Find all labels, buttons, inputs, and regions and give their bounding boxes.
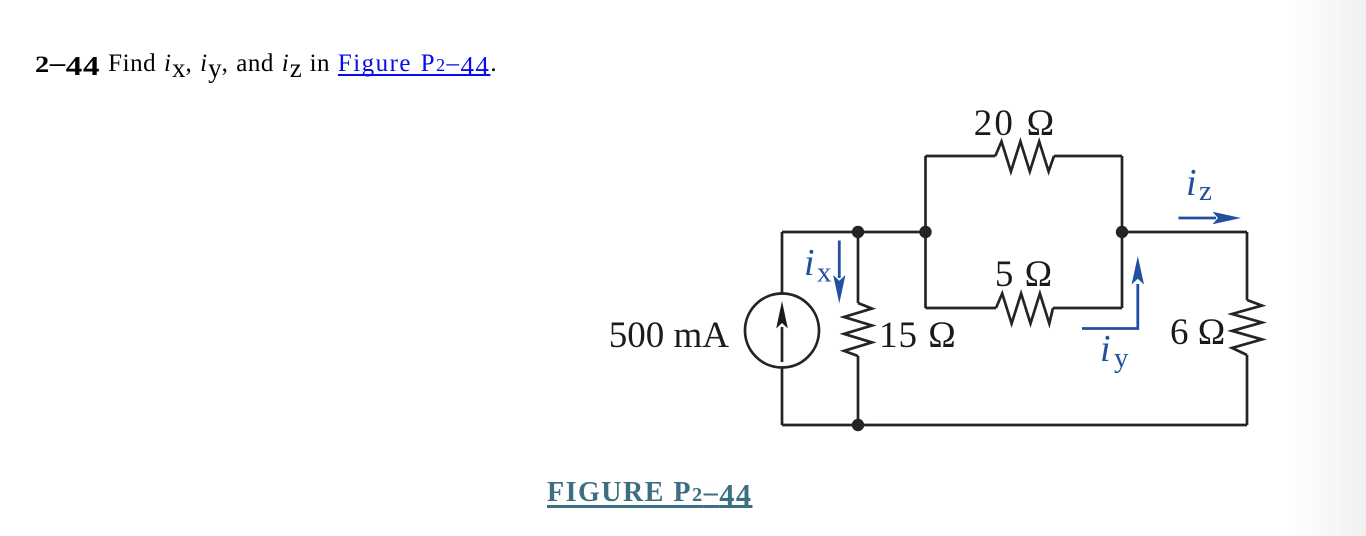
node C dot xyxy=(1116,226,1128,238)
figure caption link xyxy=(547,479,752,507)
svg-text:5 Ω: 5 Ω xyxy=(995,254,1053,295)
resistor R2 20 ohm zigzag xyxy=(995,142,1054,172)
wire: 5-ohm branch right horizontal xyxy=(1053,307,1122,310)
svg-text:x: x xyxy=(817,257,832,289)
svg-text:i: i xyxy=(1186,162,1197,204)
wire: 6-ohm branch bottom vertical xyxy=(1246,355,1249,425)
svg-text:20 Ω: 20 Ω xyxy=(974,103,1057,144)
resistor R4 6 ohm zigzag xyxy=(1232,300,1262,355)
current label ix xyxy=(804,242,832,289)
svg-text:y: y xyxy=(1114,342,1129,374)
wire: top branch left horizontal xyxy=(926,155,996,158)
current arrow ix (down) xyxy=(833,241,845,304)
svg-text:15 Ω: 15 Ω xyxy=(879,315,957,356)
svg-text:6 Ω: 6 Ω xyxy=(1170,312,1225,353)
svg-text:i: i xyxy=(1100,328,1111,370)
wire: top branch left vertical xyxy=(924,156,927,232)
right page-edge gradient xyxy=(1286,0,1366,536)
current arrow iz (right) xyxy=(1179,212,1242,224)
svg-text:500 mA: 500 mA xyxy=(609,315,730,356)
current arrow iy (L-shape up) xyxy=(1082,256,1144,329)
source arrow xyxy=(776,301,788,362)
wire: 5-ohm branch right vertical xyxy=(1121,232,1124,308)
node A dot xyxy=(852,226,864,238)
svg-text:i: i xyxy=(804,242,815,284)
node B dot xyxy=(919,226,931,238)
current source U1 circle xyxy=(745,294,819,368)
wire: source bottom vertical xyxy=(781,368,784,426)
wire: 15-ohm branch top xyxy=(857,232,860,303)
current label iy xyxy=(1100,328,1129,374)
resistor R1 15 ohm zigzag xyxy=(844,303,872,356)
wire: top branch right horizontal xyxy=(1054,155,1122,158)
wire: 6-ohm branch top vertical xyxy=(1246,232,1249,300)
node D dot (bottom) xyxy=(852,419,864,431)
wire: source top vertical xyxy=(781,232,784,294)
svg-text:z: z xyxy=(1199,175,1212,207)
wire: 15-ohm branch bottom xyxy=(857,356,860,425)
resistor R3 5 ohm zigzag xyxy=(996,294,1053,324)
wire: node to 6-ohm branch xyxy=(1122,231,1247,234)
current label iz xyxy=(1186,162,1212,207)
wire: 5-ohm branch left horizontal xyxy=(926,307,997,310)
wire: 5-ohm branch left vertical xyxy=(924,232,927,308)
wire: node row from source top to middle junction xyxy=(782,231,926,234)
wire: bottom rail xyxy=(782,424,1247,427)
problem statement text xyxy=(35,51,497,76)
wire: top branch right vertical xyxy=(1121,156,1124,232)
